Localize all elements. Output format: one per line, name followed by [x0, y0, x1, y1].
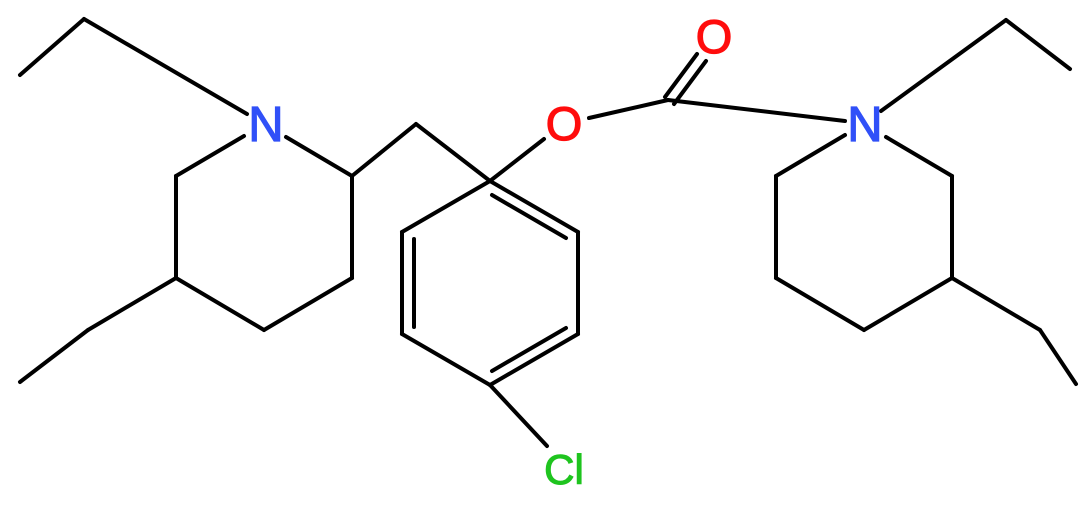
T - Oe — [490, 139, 544, 181]
right ring N-A2' — [776, 135, 845, 176]
A5' - L1' — [952, 278, 1040, 330]
left ring A3-A4 — [176, 278, 264, 330]
left propyl k2-N — [84, 19, 247, 114]
L1 - L2 — [20, 330, 88, 382]
W1 - T — [416, 124, 490, 181]
C - Nr — [668, 100, 845, 121]
left ring A6-N — [286, 137, 352, 176]
left ring A2-A3 — [174, 176, 178, 278]
left ring A4-A5 — [264, 278, 352, 330]
benzene TR-BR — [576, 232, 580, 334]
L1' - L2' — [1040, 330, 1076, 384]
svg-text:Cl: Cl — [544, 446, 584, 493]
svg-text:N: N — [847, 98, 882, 152]
left ring A5-A6 — [350, 176, 354, 278]
A6 - W1 — [352, 124, 416, 176]
C=Oc double — [665, 54, 697, 97]
Oe - C — [589, 100, 668, 118]
chain peak - end — [1006, 20, 1070, 69]
B - Cl — [490, 385, 547, 446]
benzene B-BL — [402, 334, 490, 385]
right ring A6'-N — [886, 137, 952, 176]
svg-text:N: N — [248, 98, 283, 152]
svg-text:O: O — [696, 10, 733, 63]
Nr - chain up — [881, 20, 1006, 111]
right ring A4'-A5' — [864, 278, 952, 330]
A3 - L1 — [88, 278, 176, 330]
right ring A2'-A3' — [774, 176, 778, 278]
left propyl k1-k2 — [20, 19, 84, 75]
benzene BR-B double — [490, 334, 578, 385]
right ring A3'-A4' — [776, 278, 864, 330]
svg-text:O: O — [546, 97, 583, 150]
left ring N-A2 — [176, 136, 244, 176]
benzene BL-TL double — [400, 232, 404, 334]
right ring A5'-A6' — [950, 176, 954, 278]
benzene T-TR double — [490, 181, 578, 232]
benzene TL-T — [402, 181, 490, 232]
